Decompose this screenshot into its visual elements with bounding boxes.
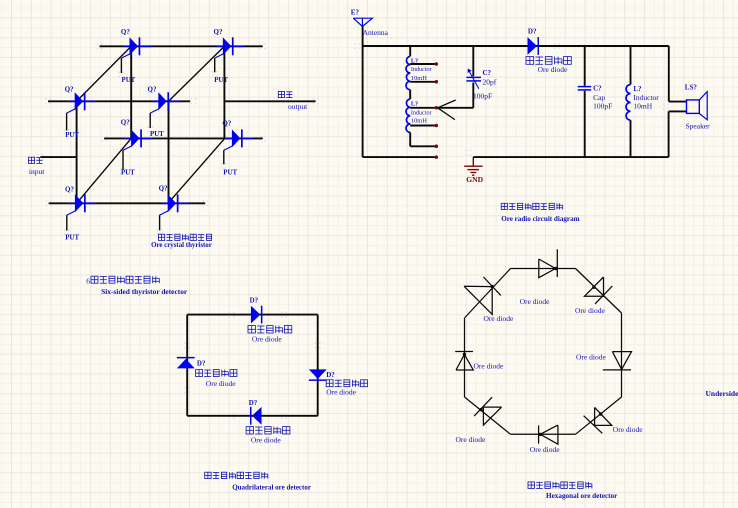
node tap dot 2 xyxy=(435,80,439,84)
PUT Q1 (back-top left) xyxy=(119,28,151,84)
svg-text:LS?: LS? xyxy=(685,83,698,91)
svg-text:100pF: 100pF xyxy=(593,102,612,111)
svg-text:Inductor: Inductor xyxy=(411,110,432,116)
wiper arrow xyxy=(438,100,456,120)
diode D13 (octagon top-left) xyxy=(464,277,514,323)
svg-text:Ore diode: Ore diode xyxy=(484,314,514,323)
wire octagon top edge xyxy=(511,268,576,270)
diode D5 (quad bottom) xyxy=(246,399,290,444)
svg-text:input: input xyxy=(29,167,45,176)
wire back-bottom edge (row3) xyxy=(101,136,265,142)
svg-text:Ore diode: Ore diode xyxy=(206,379,236,388)
svg-text:PUT: PUT xyxy=(121,169,135,176)
diode D4 (quad right) xyxy=(309,369,368,396)
wire bottom rail xyxy=(466,150,669,158)
svg-text:PUT: PUT xyxy=(150,131,164,138)
svg-text:L?: L? xyxy=(411,100,418,107)
wire tap 2 xyxy=(410,81,435,83)
svg-text:C?: C? xyxy=(483,69,492,77)
wire varcap top lead xyxy=(472,46,474,76)
wire octagon bottom-left edge xyxy=(465,397,511,434)
wire coil joint xyxy=(409,90,411,99)
wire inductor bottom lead xyxy=(630,120,632,157)
diode D9 (octagon bottom-right) xyxy=(584,407,644,434)
svg-text:Ore diode: Ore diode xyxy=(538,65,568,74)
wire tap 1 xyxy=(410,63,435,65)
svg-text:Ore radio circuit diagram: Ore radio circuit diagram xyxy=(501,215,579,223)
svg-text:Q?: Q? xyxy=(65,86,74,94)
wire octagon bottom-right edge xyxy=(576,397,622,434)
node output label xyxy=(278,91,308,111)
speaker LS1 xyxy=(685,83,710,130)
wire top rail xyxy=(355,43,669,49)
PUT Q4 (front-top right) xyxy=(147,86,179,139)
diode D12 (octagon left) xyxy=(455,352,504,371)
diode D1 ore diode xyxy=(526,28,571,75)
ground GND xyxy=(464,157,483,184)
antenna E1 xyxy=(351,9,389,38)
wire depth edge FTR-BTR xyxy=(169,46,225,101)
caption quadrilateral ore detector xyxy=(205,472,311,491)
svg-text:6: 6 xyxy=(86,276,90,285)
svg-text:Q?: Q? xyxy=(214,28,223,36)
svg-text:PUT: PUT xyxy=(214,77,228,84)
svg-text:D?: D? xyxy=(528,28,537,36)
wire coil top lead xyxy=(409,46,411,56)
node tap dot 3 xyxy=(435,106,439,110)
diode D2 (quad top) xyxy=(248,296,292,343)
PUT Q3 (front-top left) xyxy=(64,86,96,140)
svg-text:D?: D? xyxy=(250,296,259,304)
inductor L2 (tank bottom) 10mH xyxy=(406,99,432,132)
capacitor C1 variable 100pF xyxy=(466,68,496,100)
wire quad right edge xyxy=(315,315,321,416)
PUT Q8 (front-bottom right) xyxy=(157,185,189,235)
svg-text:Q?: Q? xyxy=(222,119,231,127)
svg-text:PUT: PUT xyxy=(65,132,79,139)
svg-text:Hexagonal ore detector: Hexagonal ore detector xyxy=(546,492,618,500)
svg-text:Inductor: Inductor xyxy=(411,67,432,73)
svg-text:Ore diode: Ore diode xyxy=(326,388,356,397)
node tap dot 6 xyxy=(435,155,439,159)
inductor L3 10mH xyxy=(626,85,659,121)
node tap dot 5 xyxy=(435,145,439,149)
svg-text:C?: C? xyxy=(593,84,602,92)
svg-text:D?: D? xyxy=(249,399,258,407)
wire octagon left edge xyxy=(464,318,466,397)
diode D11 (octagon bottom-left) xyxy=(456,397,502,444)
svg-text:Ore diode: Ore diode xyxy=(520,297,550,306)
svg-text:Ore diode: Ore diode xyxy=(575,306,605,315)
svg-text:Antenna: Antenna xyxy=(363,28,389,37)
capacitor C2 Cap 100pF xyxy=(578,84,613,110)
svg-text:Ore crystal thyristor: Ore crystal thyristor xyxy=(151,242,212,249)
svg-text:PUT: PUT xyxy=(223,169,237,176)
wire quad bottom edge xyxy=(187,413,318,419)
svg-text:Q?: Q? xyxy=(65,186,74,194)
wire front-right vertical edge xyxy=(168,101,170,203)
wire depth edge FBL-BBL xyxy=(77,138,132,203)
svg-text:GND: GND xyxy=(466,175,483,184)
diode D8 (octagon right) xyxy=(576,352,632,370)
wire octagon right edge xyxy=(621,313,623,397)
node tap dot 1 xyxy=(435,62,439,66)
svg-text:Ore diode: Ore diode xyxy=(613,425,643,434)
wire back-top edge (row1) xyxy=(97,43,266,49)
caption ore crystal thyristor xyxy=(151,234,212,249)
svg-text:10mH: 10mH xyxy=(633,102,652,111)
svg-text:E?: E? xyxy=(351,9,360,17)
caption underside (clipped) xyxy=(706,389,738,398)
diode D6 (octagon top) xyxy=(520,249,558,306)
wire quad left edge xyxy=(184,315,190,416)
wire depth edge FTL-BTL xyxy=(77,46,132,101)
wire back-left vertical edge xyxy=(130,46,132,138)
svg-text:Six-sided thyristor detector: Six-sided thyristor detector xyxy=(101,287,188,296)
wire octagon bottom edge xyxy=(511,433,576,435)
wire antenna lead xyxy=(362,26,364,157)
svg-text:Ore diode: Ore diode xyxy=(252,334,282,343)
svg-text:PUT: PUT xyxy=(122,77,136,84)
svg-text:D?: D? xyxy=(326,371,335,379)
wire front-bottom edge (row4) xyxy=(46,200,208,206)
svg-text:Ore diode: Ore diode xyxy=(456,435,486,444)
svg-text:output: output xyxy=(288,102,308,111)
wire back-right vertical edge xyxy=(223,46,225,138)
wire inductor top lead xyxy=(630,46,632,85)
diode D3 (quad left) xyxy=(177,357,237,388)
node input label xyxy=(28,157,45,176)
wire tap 3 xyxy=(410,107,435,109)
wire octagon top-right edge xyxy=(576,269,622,314)
caption ore radio circuit diagram xyxy=(501,203,579,223)
svg-text:Ore diode: Ore diode xyxy=(474,361,504,370)
wire antenna bottom to tap xyxy=(363,156,435,158)
wire tap 4 xyxy=(410,125,435,127)
caption hexagonal ore detector xyxy=(528,482,618,500)
wire input stub xyxy=(37,154,76,160)
svg-text:PUT: PUT xyxy=(65,235,79,242)
wire cap bottom lead xyxy=(584,91,586,157)
svg-text:Q?: Q? xyxy=(121,119,130,127)
svg-text:Q?: Q? xyxy=(148,86,157,94)
wire front-left vertical edge xyxy=(76,101,78,203)
wire output stub xyxy=(224,98,318,104)
svg-text:Speaker: Speaker xyxy=(686,121,711,130)
svg-text:D?: D? xyxy=(197,360,206,368)
wire wiper xyxy=(438,83,473,108)
svg-text:100pF: 100pF xyxy=(473,91,492,100)
svg-text:Ore diode: Ore diode xyxy=(530,445,560,454)
wire octagon top-left edge xyxy=(465,269,511,319)
wire cap top lead xyxy=(584,46,586,86)
diode D10 (octagon bottom) xyxy=(530,425,560,454)
PUT Q2 (back-top right) xyxy=(212,28,244,84)
wire coil bottom lead xyxy=(410,132,435,146)
wire speaker top lead xyxy=(669,46,687,102)
inductor L1 (tank top) 10mH xyxy=(406,56,432,89)
PUT Q6 (back-bottom right) xyxy=(221,119,253,176)
caption six-sided detector xyxy=(86,276,188,296)
svg-text:Ore diode: Ore diode xyxy=(576,353,606,362)
svg-text:L?: L? xyxy=(633,85,642,93)
PUT Q5 (back-bottom left) xyxy=(120,119,152,177)
svg-text:10mH: 10mH xyxy=(411,118,427,125)
svg-text:Quadrilateral ore detector: Quadrilateral ore detector xyxy=(232,484,311,492)
svg-text:Ore diode: Ore diode xyxy=(251,435,281,444)
diode D7 (octagon top-right) xyxy=(575,277,612,315)
wire front-top edge (row2) xyxy=(45,98,196,104)
svg-text:Q?: Q? xyxy=(121,28,130,36)
wire depth edge FBR-BBR xyxy=(168,138,225,203)
svg-text:20pf: 20pf xyxy=(483,77,497,86)
wire speaker bottom lead xyxy=(663,104,686,158)
svg-text:Underside det: Underside det xyxy=(706,389,738,398)
svg-text:10mH: 10mH xyxy=(411,75,427,82)
svg-text:Q?: Q? xyxy=(159,185,168,193)
wire quad top edge xyxy=(187,312,318,318)
PUT Q7 (front-bottom left) xyxy=(64,186,96,242)
node tap dot 4 xyxy=(435,124,439,128)
